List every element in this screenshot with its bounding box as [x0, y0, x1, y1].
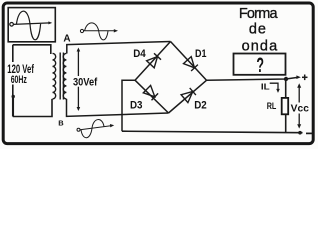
svg-text:de: de [249, 22, 266, 38]
AC source V1 sine symbol [10, 11, 50, 40]
svg-text:Forma: Forma [239, 6, 279, 22]
arrowhead positive rail [296, 75, 300, 79]
svg-text:30Vef: 30Vef [73, 77, 97, 89]
diode D1 [184, 57, 198, 71]
minus terminal [306, 132, 312, 134]
wire RL to negative rail [285, 114, 287, 132]
AC source V1 box [8, 8, 55, 42]
wire primary loop bottom [13, 99, 52, 117]
junction dot positive rail [284, 77, 288, 81]
svg-text:D2: D2 [194, 100, 207, 112]
wire edge top-right [171, 42, 207, 81]
wire edge left-bottom [135, 80, 169, 113]
30 Vef measurement arrow [77, 49, 79, 110]
diode D3 [143, 85, 158, 100]
junction dot negative rail [298, 131, 302, 135]
wire edge bottom-right [169, 80, 207, 113]
svg-text:A: A [63, 34, 70, 45]
svg-text:D1: D1 [195, 48, 207, 60]
plus terminal [302, 75, 308, 81]
wire bridge left corner to negative rail [122, 80, 135, 131]
wire edge left-top [135, 42, 171, 81]
label 30 Vef [72, 76, 100, 89]
svg-text:60Hz: 60Hz [11, 74, 28, 86]
transformer T1 secondary winding [63, 53, 66, 99]
svg-text:?: ? [256, 52, 264, 76]
Forma de onda text [239, 6, 279, 55]
label 120 Vef [7, 62, 36, 85]
wire node A to bridge top [67, 42, 171, 54]
svg-text:Vcc: Vcc [291, 104, 310, 115]
transformer T1 core [60, 53, 63, 100]
wire node B to bridge bottom [67, 99, 169, 117]
transformer T1 primary winding [53, 53, 56, 99]
wire negative rail [122, 131, 303, 133]
wire positive rail [207, 77, 299, 80]
node B waveform symbol [77, 120, 112, 138]
diode D4 [147, 53, 161, 68]
border frame [3, 3, 313, 144]
junction blob on left wire [12, 95, 15, 98]
diode D2 [181, 88, 196, 103]
wire junction to RL [285, 79, 287, 98]
svg-text:IL: IL [261, 81, 270, 91]
wire primary loop top [13, 45, 51, 54]
AC source arrowhead [48, 21, 52, 24]
resistor RL box [282, 98, 289, 114]
wire primary loop left [12, 45, 14, 96]
question box [234, 54, 286, 75]
svg-text:D4: D4 [133, 48, 146, 60]
svg-text:RL: RL [267, 101, 277, 111]
Vcc measurement arrow [298, 85, 300, 126]
svg-text:B: B [58, 119, 64, 128]
svg-text:D3: D3 [130, 99, 143, 111]
wire primary loop left lower segment [12, 96, 14, 117]
bridge diamond wires [135, 42, 207, 114]
node A waveform symbol [80, 23, 115, 40]
IL current arrow [270, 83, 278, 90]
